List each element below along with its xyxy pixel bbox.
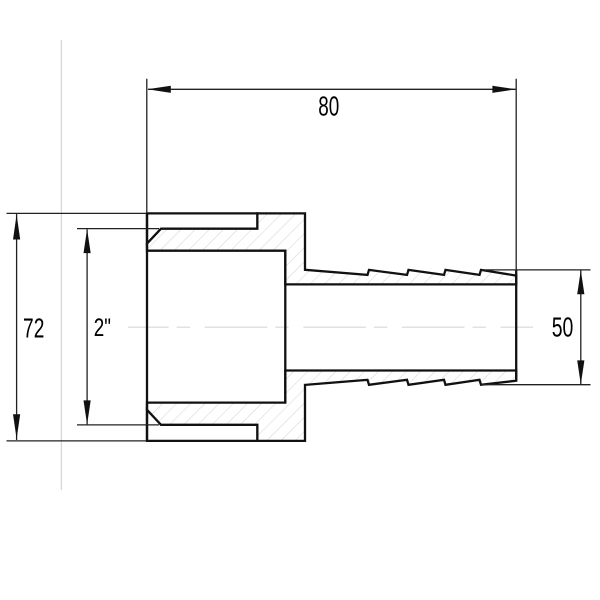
thread zone, upper (white pentagon)	[147, 213, 257, 243]
svg-text:80: 80	[318, 90, 339, 121]
svg-text:72: 72	[23, 313, 44, 344]
dim 80: extension line left	[146, 79, 148, 213]
dim 80: dimension line	[148, 88, 516, 90]
centerline (axis, dash-dot)	[128, 326, 533, 328]
faint vertical artifact line	[60, 40, 62, 490]
dim 80: right arrowhead	[492, 86, 516, 93]
dim 80: left arrowhead	[147, 86, 171, 93]
dim 50: bottom arrowhead	[577, 360, 584, 384]
thread zone, lower (white pentagon)	[147, 410, 257, 441]
hatched section, lower wall	[147, 371, 516, 441]
dim 50: top arrowhead	[577, 270, 584, 294]
thread cavity end wall	[284, 251, 286, 403]
dim 72: dimension line	[16, 214, 18, 440]
dim 2": extension line top	[77, 228, 159, 230]
dim 50: dimension line	[580, 270, 582, 384]
dim 72: top arrowhead	[13, 215, 20, 240]
dim 2": extension line bottom	[77, 424, 159, 426]
svg-text:50: 50	[552, 311, 574, 342]
dim 2": bottom arrowhead	[84, 400, 91, 424]
dim 2": top arrowhead	[84, 229, 91, 253]
dim 72: extension line bottom	[7, 440, 147, 442]
dim 72: bottom arrowhead	[13, 414, 20, 439]
left end face	[146, 213, 148, 441]
svg-text:2": 2"	[94, 314, 111, 342]
dim 50: extension line top	[482, 269, 591, 271]
barb tube end face	[515, 270, 517, 381]
dim 2": dimension line	[86, 229, 88, 424]
dim 80: extension line right	[515, 79, 517, 270]
hatched section, upper wall	[147, 213, 516, 284]
dim 50: extension line bottom	[481, 384, 591, 386]
dim 72: extension line top	[7, 212, 147, 214]
